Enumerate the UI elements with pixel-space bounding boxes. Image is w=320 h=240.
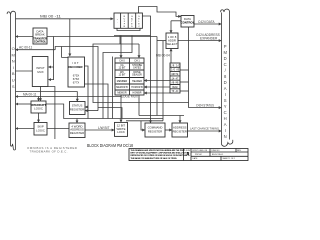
wire ladder L1 [93,36,189,108]
svg-text:N: N [12,59,15,64]
wire drop command top [150,116,152,123]
svg-text:READ: READ [172,86,178,89]
wire drop below long run [48,87,55,140]
wire IOT out 1 [85,66,89,119]
svg-text:O: O [12,46,15,51]
box IOT decoder [68,57,85,87]
channel grid texts [116,59,143,94]
svg-text:CONTROL: CONTROL [34,40,47,43]
svg-text:C: C [224,110,227,115]
wire gating box to grid 2 [144,86,170,88]
box texts [31,17,195,135]
svg-text:SELECT: SELECT [167,42,178,46]
wire grid top feed 1 [120,36,122,58]
wire ladder L4 [112,57,114,119]
svg-text:MUX: MUX [37,70,43,74]
svg-text:D: D [224,56,227,61]
svg-text:L/W BIT: L/W BIT [98,126,110,130]
wire long run 2 [126,120,163,122]
svg-text:MB 00-04: MB 00-04 [156,53,170,57]
box 4 word address register [69,123,85,138]
svg-text:WRITE: WRITE [172,73,180,76]
box MB input gates [114,13,142,28]
box gating list [170,63,180,93]
wire data break to bus [16,36,33,38]
svg-text:DWG NO: DWG NO [212,150,221,152]
svg-text:AB-MB: AB-MB [172,82,180,85]
MB gates vertical cell text [117,16,141,28]
svg-text:GATES: GATES [133,67,141,70]
wire interrupt to bus [16,103,31,105]
svg-text:E/R I/O: E/R I/O [170,64,180,67]
right bus bar DAISY CHAIN [221,9,233,146]
wire AC tap down [62,47,68,58]
title block notes paragraph [131,149,190,160]
svg-text:I: I [225,92,226,97]
svg-text:12 BIT: 12 BIT [118,67,126,70]
svg-text:CONTROL: CONTROL [181,21,195,25]
svg-text:LOGIC: LOGIC [36,128,45,132]
wire C424 ADDRESS [178,40,221,42]
svg-text:14-4T: 14-4T [172,77,180,80]
svg-text:REGISTER: REGISTER [173,129,187,133]
box address selector [166,33,178,49]
svg-text:U: U [12,78,15,83]
svg-text:BLOCK DIAGRAM PM DC/18: BLOCK DIAGRAM PM DC/18 [87,143,134,148]
box 12 bit write lock [115,122,128,136]
wire bus to status register [16,92,78,102]
wire drop lo word addr reg [76,119,78,123]
svg-text:THE BASIS FOR MANUFACTURE OR S: THE BASIS FOR MANUFACTURE OR SALE OF ITE… [131,157,178,160]
svg-text:I/O AS: I/O AS [171,69,180,72]
wire grid top feed 2 [138,44,140,58]
svg-text:M: M [223,50,227,55]
svg-text:H: H [224,116,227,121]
svg-text:S: S [224,98,227,103]
wire grid bottom to write lock [120,95,122,122]
wire addr sel top arrow [170,21,172,33]
svg-text:EDGE MUX: EDGE MUX [121,95,139,99]
wire MA 00-11 [16,96,121,98]
wire command to address reg [165,129,172,131]
wire C424 DATA [194,23,221,25]
box skip logic [34,123,47,136]
svg-text:BREAK: BREAK [35,33,45,37]
svg-text:MA 00-11: MA 00-11 [23,92,37,96]
wire status right feed 1 [85,106,88,108]
wire skip right to addr reg [47,128,69,130]
svg-text:MEMBER: MEMBER [117,80,128,83]
wire top loop to data control [139,7,181,17]
wire data break right run [47,36,157,38]
svg-text:S: S [12,84,15,89]
svg-text:A: A [224,122,227,127]
wire MB 00-04 up arrow [170,49,172,63]
wire x157 drop [156,37,158,116]
wire MB drop to IOT decoder [69,19,71,56]
box data control [181,16,194,28]
box data break transfer control [33,28,47,44]
wire gating right 3 [180,90,189,92]
wire y115.5 run [139,115,184,117]
svg-text:REGISTER: REGISTER [70,131,84,135]
svg-text:HOMBR: HOMBR [133,92,142,95]
svg-text:677X: 677X [73,81,80,85]
wire interrupt out long run [46,104,163,119]
svg-text:SHEET 1 OF 1: SHEET 1 OF 1 [223,158,236,160]
node OMNIBUS label [12,46,15,89]
svg-text:M: M [12,52,15,57]
svg-text:AC 00-11: AC 00-11 [19,46,32,50]
svg-text:THIS DRAWING AND SPECIFICATION: THIS DRAWING AND SPECIFICATIONS HEREIN A… [131,149,187,152]
box status register [70,102,86,115]
title block table [129,149,248,161]
wire skip to bus [16,128,34,130]
svg-text:FIRST USED ON: FIRST USED ON [193,150,208,152]
svg-text:BS-DC18-0-1: BS-DC18-0-1 [212,154,223,156]
omnibus left bus bar [7,11,15,150]
svg-text:CH 0: CH 0 [119,59,125,62]
svg-text:N: N [224,134,227,139]
svg-text:ERTY OF DIGITAL EQUIPMENT CORP: ERTY OF DIGITAL EQUIPMENT CORPORATION AN… [131,152,190,155]
wire interrupt to skip [38,113,40,122]
wire IOT out 2 [85,84,109,119]
wire input mux feed left [16,70,34,72]
svg-text:MB 00 -11: MB 00 -11 [40,15,61,19]
wire gating right 1 [180,69,189,71]
svg-text:HEADER: HEADER [132,80,142,83]
svg-text:I: I [13,65,14,70]
svg-text:Y: Y [224,104,227,109]
wire gating box to grid 3 [144,92,170,94]
wire gating box to grid 1 [144,80,170,82]
wire lo word to write lock L/W BIT [85,129,114,131]
svg-text:LAST CHANCE TIMING: LAST CHANCE TIMING [190,128,219,131]
svg-text:D: D [224,80,227,85]
svg-text:DATE: DATE [193,157,199,160]
node PM DC/8 DAISY CHAIN label [223,44,227,139]
wire address reg to bus LAST CHANCE [188,130,222,132]
box command register [145,123,165,137]
wire gating right 2 [180,81,189,83]
svg-text:REGISTER: REGISTER [148,129,162,133]
box input mux [32,57,48,87]
box channel register grid [115,58,144,95]
wire ac branch right [98,108,122,119]
svg-text:I: I [225,128,226,133]
svg-text:DEALER: DEALER [132,74,142,77]
wire drop to input mux (two taps) [49,37,54,68]
box address register [172,123,188,137]
svg-text:LOGIC: LOGIC [34,107,43,111]
wire data control second feed [171,20,181,22]
wire MB gates right out [142,16,150,37]
wire drop address top [179,116,181,123]
wire data control drop [188,27,190,103]
wire C424 STATUS [189,107,222,109]
svg-text:LOCK: LOCK [117,130,125,134]
svg-text:MEMOR B: MEMOR B [116,86,128,89]
wire grid bottom drop [138,95,140,116]
wire left of addr sel box [157,40,166,42]
labels on wires [19,15,220,131]
trademark note [27,146,77,154]
svg-text:DECODER: DECODER [69,65,83,69]
wire command reg left feed [141,121,145,130]
svg-text:C424 STATUS: C424 STATUS [196,103,214,107]
svg-text:12 BIT: 12 BIT [118,74,126,77]
svg-text:HOMOR B: HOMOR B [131,86,143,89]
wire MA drop interrupt [38,97,40,101]
svg-text:CH 1: CH 1 [134,59,140,62]
wire x163 drop [162,41,164,121]
wire under MB gates U loop [117,28,140,30]
svg-text:C424 DATA: C424 DATA [198,20,215,24]
wire status right feed 2 [85,110,98,112]
svg-text:MEMOR: MEMOR [117,92,126,95]
wire x150 drop [150,37,152,116]
svg-text:A: A [224,86,227,91]
svg-text:TRADEMARK OF D.E.C.: TRADEMARK OF D.E.C. [30,150,68,154]
svg-text:EXPANDER: EXPANDER [200,36,218,40]
svg-text:TO AC: TO AC [172,90,180,93]
wire input mux to interrupt [40,87,42,101]
wire y35.5 run [114,35,151,37]
svg-text:P: P [224,44,227,49]
svg-text:REGISTER: REGISTER [70,107,84,111]
wire second tap input mux [49,67,54,80]
wire AC 00-11 [16,49,56,51]
wire MB 00-11 bus to MB gates [16,18,114,20]
box interrupt logic [31,101,46,113]
svg-text:B: B [12,71,15,76]
svg-text:C: C [224,62,227,67]
wire ladder L3 [103,36,132,119]
gating list texts [170,64,180,93]
svg-text:REPRODUCED OR COPIED OR USED I: REPRODUCED OR COPIED OR USED IN WHOLE OR… [131,154,187,157]
svg-text:PDP-8/I: PDP-8/I [195,154,202,156]
